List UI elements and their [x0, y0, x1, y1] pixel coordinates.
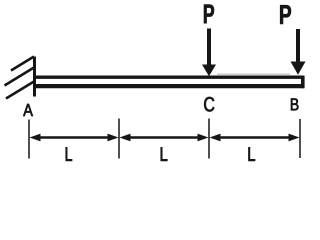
dimension label L 3 [249, 147, 256, 161]
extension tick at A [28, 120, 30, 159]
fixed support wall at A [33, 57, 36, 97]
hatch line 1 [11, 57, 34, 71]
force arrow P at B [291, 29, 306, 75]
label P at B [280, 5, 291, 24]
extension tick at C [208, 119, 210, 159]
beam bottom edge [34, 84, 304, 88]
dimension label L 2 [161, 147, 168, 161]
dimension segment 2 [120, 134, 209, 142]
dimension segment 1 [30, 134, 119, 142]
extension tick at B [299, 119, 301, 158]
hatch line 2 [5, 68, 35, 86]
node label C [204, 97, 214, 112]
force arrow P at C [202, 29, 216, 77]
dimension label L 1 [66, 147, 72, 161]
faint scan line above beam between C and B [217, 73, 290, 75]
beam right end edge at B [301, 76, 305, 89]
dimension segment 3 [210, 134, 300, 142]
hatch line 3 [6, 82, 34, 99]
node label B [291, 99, 298, 111]
label P at C [204, 5, 214, 24]
node label A [23, 104, 33, 116]
beam top edge [34, 76, 304, 79]
extension tick 2 [118, 119, 120, 159]
